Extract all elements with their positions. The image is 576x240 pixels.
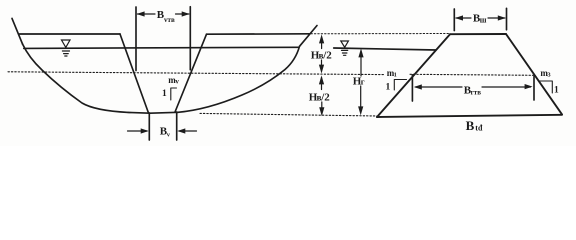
embankment crest (450, 33, 506, 35)
trench right wall (175, 34, 207, 112)
Bsh extension line left (453, 9, 455, 31)
Bgtb extension line left (411, 75, 413, 101)
Bgtb extension line right (533, 77, 535, 101)
svg-text:/2: /2 (320, 91, 330, 103)
svg-text:/2: /2 (322, 49, 332, 61)
embankment right slope (506, 34, 562, 114)
water line left (24, 47, 298, 48)
water level symbol left (62, 40, 71, 56)
water line middle (334, 48, 436, 50)
Hb/2 upper dimension (321, 40, 323, 112)
right excavation curve (178, 46, 300, 112)
svg-text:1: 1 (386, 83, 391, 93)
Bgtb dimension arrows (416, 86, 531, 88)
Bvtb extension line right (189, 7, 191, 70)
embankment left slope (377, 34, 450, 117)
Bv extension line left (148, 113, 150, 140)
m3 slope gauge (539, 81, 553, 93)
crest-level dotted line (311, 33, 450, 35)
left bank slope (12, 18, 23, 44)
svg-text:1: 1 (554, 86, 559, 96)
Bvtb extension line left (135, 7, 137, 71)
svg-text:3: 3 (547, 72, 551, 79)
bottom dotted line (200, 113, 377, 116)
mv slope gauge (171, 88, 177, 100)
embankment base line (377, 115, 562, 117)
m1 slope gauge (394, 80, 406, 91)
svg-text:B: B (466, 118, 475, 133)
svg-text:гтв: гтв (471, 88, 482, 96)
Hr dimension (360, 54, 362, 110)
embankment mid dotted line (410, 74, 534, 75)
svg-text:ш: ш (480, 16, 487, 25)
trench left wall (120, 34, 149, 113)
Bv extension line right (176, 112, 178, 140)
Bv arrows (128, 130, 197, 132)
svg-text:г: г (361, 76, 365, 86)
svg-text:vтв: vтв (164, 16, 175, 24)
Bsh extension line right (506, 8, 508, 30)
trench bottom (150, 111, 178, 114)
ground line right (207, 33, 310, 35)
svg-text:v: v (167, 131, 171, 138)
Bsh dimension arrows (456, 17, 505, 19)
svg-text:tđ: tđ (475, 124, 483, 133)
svg-text:v: v (175, 77, 179, 85)
left excavation curve (23, 44, 151, 113)
Bvtb dimension arrows (138, 13, 189, 15)
water level symbol middle (341, 41, 349, 55)
right bank slope (300, 26, 318, 47)
mid-depth dotted line (8, 72, 385, 75)
svg-text:1: 1 (394, 72, 397, 79)
svg-text:1: 1 (162, 89, 167, 99)
ground line left (20, 33, 121, 35)
